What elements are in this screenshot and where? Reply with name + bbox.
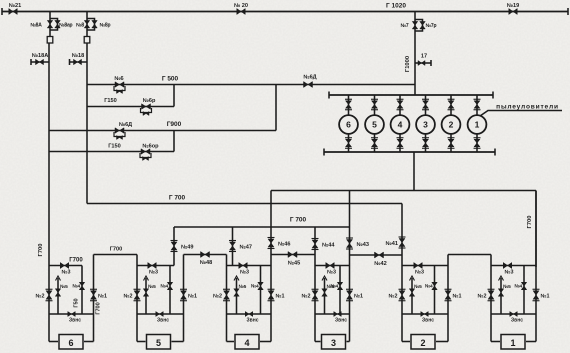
- svg-text:3: 3: [423, 120, 428, 130]
- valve N2 unit4: [224, 291, 230, 300]
- valve N8Ar: [55, 20, 61, 28]
- wire inlet stub dust collector 1: [476, 95, 478, 116]
- valve N20: [237, 9, 246, 15]
- valve vns unit2: [421, 312, 429, 317]
- valve N2 unit6: [46, 291, 52, 300]
- svg-text:№18А: №18А: [32, 53, 49, 59]
- valve N5 unit4: [234, 289, 240, 297]
- svg-text:№3: №3: [415, 270, 424, 276]
- valve N45: [288, 252, 297, 258]
- svg-text:№1: №1: [188, 294, 197, 300]
- wire unit5 left vertical: [136, 255, 138, 342]
- valve N5 unit6: [55, 289, 61, 297]
- wire unit2 box connectors: [402, 341, 410, 343]
- wire unit1 inner vertical N4: [523, 266, 525, 315]
- svg-text:4: 4: [398, 120, 403, 130]
- svg-text:№4: №4: [160, 284, 168, 290]
- valve N6or: [141, 149, 150, 155]
- valve N1 unit5: [181, 291, 187, 300]
- inlet valve dust collector 1: [474, 101, 480, 109]
- wire inlet stub dust collector 3: [425, 95, 427, 116]
- wire unit6 N3 bypass line: [49, 265, 82, 267]
- wire G500 line: [87, 84, 415, 86]
- wire unit5 right vertical: [183, 255, 185, 342]
- svg-text:Г1000: Г1000: [405, 56, 411, 72]
- wire dust collector top header: [329, 94, 493, 96]
- wire drop-1 vertical from top header: [49, 12, 51, 37]
- svg-text:№2: №2: [213, 294, 222, 300]
- svg-text:№2: №2: [477, 294, 486, 300]
- wire left vertical (drop-1 continues to unit 6): [48, 43, 50, 266]
- actuator valve on drop-1: [47, 37, 53, 44]
- wire unit4 N3 bypass line: [227, 265, 272, 267]
- valve 17: [418, 61, 425, 66]
- svg-text:№44: №44: [322, 243, 335, 249]
- wire unit1 right vertical: [535, 191, 537, 342]
- svg-text:№8А: №8А: [30, 23, 42, 29]
- svg-text:№42: №42: [374, 261, 386, 267]
- svg-text:Г 700: Г 700: [290, 217, 307, 224]
- valve N8A: [47, 20, 53, 28]
- svg-text:№1: №1: [98, 294, 107, 300]
- svg-text:3: 3: [331, 338, 336, 348]
- wire unit6 inner vertical N4: [81, 266, 83, 315]
- svg-text:№5: №5: [60, 284, 68, 290]
- svg-text:Г900: Г900: [167, 121, 182, 128]
- wire crossover N42: [350, 254, 403, 256]
- valve N8: [84, 20, 90, 28]
- svg-text:17: 17: [421, 54, 427, 60]
- svg-text:2: 2: [449, 120, 454, 130]
- end tick of N18 stub: [69, 59, 71, 65]
- wire unit4 inner vertical N5 with arrow: [236, 278, 238, 314]
- svg-text:№6ор: №6ор: [142, 144, 159, 150]
- valve vns unit1: [510, 312, 518, 317]
- valve N42: [375, 252, 384, 258]
- unit box 3: [322, 335, 346, 350]
- wire unit6 left vertical: [48, 266, 50, 342]
- wire N49 riser: [173, 227, 175, 266]
- svg-text:№8р: №8р: [100, 23, 111, 29]
- wire outlet stub dust collector 6: [348, 134, 350, 153]
- valve N1 unit2: [445, 291, 451, 300]
- valve N1 unit3: [347, 291, 353, 300]
- svg-text:№47: №47: [240, 245, 252, 251]
- svg-text:№3: №3: [504, 270, 513, 276]
- valve N2 unit5: [134, 291, 140, 300]
- svg-text:№1: №1: [354, 294, 363, 300]
- valve N41: [399, 239, 405, 247]
- svg-text:Г700: Г700: [527, 216, 533, 229]
- svg-text:Г 1020: Г 1020: [386, 3, 406, 10]
- wire stub of N18A: [31, 61, 49, 63]
- valve vns unit4: [245, 312, 253, 317]
- valve N3 unit5: [148, 263, 157, 269]
- wire inlet stub dust collector 5: [374, 95, 376, 116]
- valve N5 unit3: [322, 289, 328, 297]
- wire unit5 N3 bypass line: [137, 265, 174, 267]
- svg-text:6: 6: [68, 338, 73, 348]
- wire outlet stub dust collector 2: [450, 134, 452, 153]
- svg-text:№5: №5: [414, 284, 422, 290]
- svg-text:Звнс: Звнс: [422, 318, 434, 324]
- valve N3 unit6: [60, 263, 69, 269]
- wire unit2 right vertical: [447, 255, 449, 342]
- svg-text:№5: №5: [148, 284, 156, 290]
- svg-text:Г700: Г700: [110, 247, 123, 253]
- valve N4 unit4: [258, 282, 264, 290]
- svg-text:1: 1: [475, 120, 480, 130]
- dust collector vessel 2: [442, 115, 461, 134]
- inlet valve dust collector 2: [448, 101, 454, 109]
- wire G900 line: [49, 130, 276, 132]
- wire manifold row2 G700: [87, 203, 402, 205]
- svg-text:Звнс: Звнс: [511, 318, 523, 324]
- end tick of 17 stub: [430, 60, 432, 66]
- svg-text:№8: №8: [76, 23, 84, 29]
- wire unit5 box connectors: [137, 341, 146, 343]
- svg-text:Г50: Г50: [74, 298, 80, 307]
- bypass loop of N7: [415, 20, 423, 32]
- wire dust collector bottom header: [324, 151, 495, 153]
- outlet valve dust collector 2: [448, 139, 454, 147]
- wire stub of N18: [70, 61, 88, 63]
- wire outlet stub dust collector 5: [374, 134, 376, 153]
- tick right top header: [492, 92, 494, 99]
- bypass loop of N8A: [50, 19, 58, 31]
- wire unit3 inner vertical N4: [339, 266, 341, 315]
- valve vns unit3: [334, 312, 342, 317]
- wire drop-3 vertical from top header to dust collectors: [414, 12, 416, 96]
- wire unit5 inner vertical N5 with arrow: [145, 278, 147, 314]
- wire unit2 N3 bypass line: [402, 265, 448, 267]
- svg-text:Звнс: Звнс: [157, 318, 169, 324]
- svg-text:6: 6: [346, 120, 351, 130]
- wire outlet stub dust collector 1: [476, 134, 478, 153]
- valve N8r: [92, 20, 98, 28]
- valve N2 unit2: [399, 291, 405, 300]
- valve N2 unit3: [312, 291, 318, 300]
- svg-text:Г700: Г700: [38, 244, 44, 257]
- tick right bottom header: [494, 149, 496, 156]
- svg-text:5: 5: [156, 338, 161, 348]
- wire unit6 right vertical: [93, 255, 95, 342]
- svg-text:4: 4: [244, 338, 249, 348]
- valve N6D2: [115, 128, 124, 134]
- svg-text:Г150: Г150: [104, 98, 117, 104]
- wire unit3 N3 bypass line: [315, 265, 350, 267]
- wire unit4 vns line: [227, 313, 272, 315]
- svg-text:№1: №1: [276, 294, 285, 300]
- valve N2 unit1: [488, 291, 494, 300]
- wire manifold row1: [271, 190, 536, 192]
- svg-text:№2: №2: [388, 294, 397, 300]
- svg-text:№4: №4: [514, 284, 522, 290]
- end tick of N18A stub: [30, 59, 32, 65]
- valve N5 unit1: [498, 289, 504, 297]
- svg-text:№5: №5: [503, 284, 511, 290]
- svg-text:№6Д: №6Д: [303, 75, 316, 81]
- wire unit1 box connectors: [491, 341, 500, 343]
- svg-text:№21: №21: [9, 3, 21, 9]
- svg-text:№48: №48: [200, 260, 212, 266]
- inlet valve dust collector 6: [346, 101, 352, 109]
- unit box 6: [59, 335, 83, 350]
- valve N7r: [420, 21, 426, 29]
- svg-text:№4: №4: [330, 284, 338, 290]
- svg-text:№1: №1: [541, 294, 550, 300]
- wire crossover N45: [271, 254, 315, 256]
- wire unit2 left vertical: [401, 204, 403, 342]
- end tick left of top header: [1, 8, 3, 15]
- svg-text:№2: №2: [35, 294, 44, 300]
- svg-text:№7: №7: [401, 23, 409, 29]
- inlet valve dust collector 3: [423, 101, 429, 109]
- wire drop-2 vertical from top header: [86, 12, 88, 37]
- valve N3 unit2: [414, 263, 423, 269]
- valve N1 unit4: [268, 291, 274, 300]
- wire unit3 right vertical: [349, 191, 351, 342]
- wire outlet stub dust collector 4: [399, 134, 401, 153]
- svg-text:№46: №46: [278, 242, 290, 248]
- valve N18: [74, 59, 82, 65]
- outlet valve dust collector 5: [372, 139, 378, 147]
- valve N3 unit4: [239, 263, 248, 269]
- valve N49: [171, 242, 177, 250]
- wire unit4 box connectors: [227, 341, 235, 343]
- outlet valve dust collector 4: [397, 139, 403, 147]
- wire unit2 inner vertical N5 with arrow: [411, 278, 413, 314]
- svg-text:№3: №3: [240, 270, 249, 276]
- svg-text:5: 5: [372, 120, 377, 130]
- svg-text:№5: №5: [239, 284, 247, 290]
- wire G150 bypass line of N6: [87, 106, 174, 108]
- svg-text:№1: №1: [453, 294, 462, 300]
- svg-text:№43: №43: [357, 242, 369, 248]
- svg-text:№3: №3: [327, 270, 336, 276]
- wire unit1 N3 bypass line: [491, 265, 536, 267]
- dust collector vessel 5: [365, 115, 384, 134]
- wire collector unit2-unit1: [448, 254, 491, 256]
- wire unit6 box connectors: [49, 341, 58, 343]
- wire collector unit6-unit5: [94, 254, 138, 256]
- svg-text:№45: №45: [288, 261, 300, 267]
- svg-text:2: 2: [420, 338, 425, 348]
- inlet valve dust collector 5: [372, 101, 378, 109]
- valve vns unit5: [156, 312, 164, 317]
- dust collector vessel 3: [416, 115, 435, 134]
- inlet valve dust collector 4: [397, 101, 403, 109]
- svg-text:Г150: Г150: [108, 144, 121, 150]
- wire right G700 vertical: [535, 191, 537, 268]
- svg-text:№6: №6: [114, 76, 123, 82]
- wire unit6 inner vertical N5 with arrow: [57, 278, 59, 314]
- valve N43: [347, 240, 353, 248]
- wire unit2 vns line: [402, 313, 448, 315]
- wire inlet stub dust collector 4: [399, 95, 401, 116]
- dust collector vessel 1: [468, 115, 487, 134]
- wire right vertical (drop-2 continues to G700 manifold): [86, 43, 88, 204]
- svg-text:Г 700: Г 700: [169, 195, 186, 202]
- svg-text:Звнс: Звнс: [246, 318, 258, 324]
- valve N3 unit3: [326, 263, 335, 269]
- wire unit4 left vertical: [226, 255, 228, 342]
- valve N6: [115, 82, 124, 88]
- svg-text:№41: №41: [386, 241, 398, 247]
- wire unit1 left vertical: [490, 255, 492, 342]
- valve N7: [412, 21, 418, 29]
- wire drop from bottom header to row1: [413, 152, 415, 191]
- tick left bottom header: [323, 149, 325, 156]
- valve N6D: [304, 82, 313, 88]
- valve N47: [230, 242, 236, 250]
- outlet valve dust collector 6: [346, 139, 352, 147]
- tick left top header: [328, 92, 330, 99]
- wire unit3 left vertical: [314, 227, 316, 342]
- bypass loop of N8: [87, 19, 95, 31]
- svg-text:Звнс: Звнс: [69, 318, 81, 324]
- valve N46: [268, 239, 274, 247]
- valve N4 unit2: [432, 282, 438, 290]
- svg-text:№2: №2: [301, 294, 310, 300]
- wire stub of valve 17: [415, 62, 431, 64]
- valve N4 unit6: [79, 282, 85, 290]
- svg-text:пылеуловители: пылеуловители: [496, 104, 559, 111]
- svg-text:№ 20: № 20: [234, 3, 248, 9]
- unit box 4: [235, 335, 259, 350]
- svg-text:Звнс: Звнс: [335, 318, 347, 324]
- wire N47 riser: [232, 227, 234, 266]
- valve N19: [509, 9, 518, 15]
- wire connector G500 to G150: [173, 85, 175, 107]
- valve N18A: [36, 59, 44, 65]
- wire G150 bypass line of N6or: [49, 151, 174, 153]
- svg-text:№4: №4: [251, 284, 259, 290]
- valve N3 unit1: [503, 263, 512, 269]
- valve N44: [312, 240, 318, 248]
- wire unit5 inner vertical N4: [169, 266, 171, 315]
- dust collector vessel 6: [339, 115, 358, 134]
- wire unit1 vns line: [491, 313, 536, 315]
- valve N5 unit2: [409, 289, 415, 297]
- wire inlet stub dust collector 2: [450, 95, 452, 116]
- wire unit3 vns line: [315, 313, 350, 315]
- valve N1 unit6: [91, 291, 97, 300]
- svg-text:№6Д: №6Д: [119, 122, 132, 128]
- wire unit3 box connectors: [315, 341, 321, 343]
- valve N5 unit5: [143, 289, 149, 297]
- dust collector vessel 4: [391, 115, 410, 134]
- valve N1 unit1: [533, 291, 539, 300]
- wire unit4 right vertical: [270, 191, 272, 342]
- valve N4 unit5: [167, 282, 173, 290]
- valve N4 unit3: [337, 282, 343, 290]
- leader line of dust collectors label: [480, 111, 562, 117]
- wire unit6 vns line: [49, 313, 94, 315]
- actuator valve on drop-2: [84, 37, 90, 44]
- wire top main header line: [2, 11, 568, 13]
- wire connector G900 to G150-2: [173, 131, 175, 152]
- valve N6r: [142, 104, 151, 110]
- wire unit2 inner vertical N4: [434, 266, 436, 315]
- svg-text:№4: №4: [425, 284, 433, 290]
- wire unit1 inner vertical N5 with arrow: [500, 278, 502, 314]
- unit box 2: [411, 335, 435, 350]
- svg-text:Г700: Г700: [69, 258, 83, 264]
- wire riser G900 to G500: [275, 85, 277, 131]
- valve N21: [9, 9, 18, 15]
- valve vns unit6: [68, 312, 76, 317]
- valve N4 unit1: [521, 282, 527, 290]
- svg-text:1: 1: [510, 338, 515, 348]
- wire outlet stub dust collector 3: [425, 134, 427, 153]
- svg-text:№4: №4: [72, 284, 80, 290]
- unit box 5: [147, 335, 171, 350]
- svg-text:№8ар: №8ар: [59, 23, 73, 29]
- svg-text:Г 500: Г 500: [162, 76, 179, 83]
- svg-text:Г700: Г700: [96, 302, 102, 314]
- wire unit3 inner vertical N5 with arrow: [324, 278, 326, 314]
- svg-text:№19: №19: [507, 3, 519, 9]
- wire unit5 vns line: [137, 313, 184, 315]
- svg-text:№2: №2: [123, 294, 132, 300]
- unit box 1: [501, 335, 525, 350]
- wire inlet stub dust collector 6: [348, 95, 350, 116]
- wire crossover N48: [184, 254, 227, 256]
- svg-text:№7р: №7р: [426, 23, 437, 29]
- valve N48: [201, 252, 210, 258]
- svg-text:№6р: №6р: [143, 98, 156, 104]
- svg-text:№3: №3: [149, 270, 158, 276]
- outlet valve dust collector 1: [474, 139, 480, 147]
- wire unit4 inner vertical N4: [260, 266, 262, 315]
- svg-text:№3: №3: [61, 270, 70, 276]
- svg-text:№18: №18: [72, 53, 84, 59]
- outlet valve dust collector 3: [423, 139, 429, 147]
- end tick right of top header: [567, 8, 569, 15]
- svg-text:№49: №49: [181, 245, 193, 251]
- wire manifold row3 G700: [174, 226, 350, 228]
